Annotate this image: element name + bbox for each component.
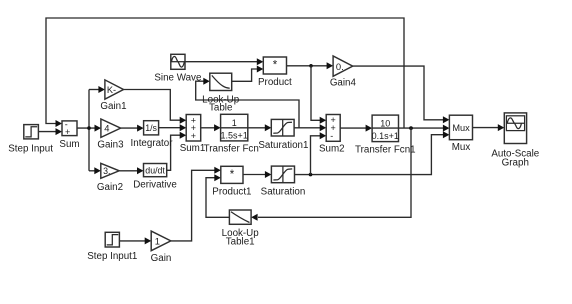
gain Gain [151,231,172,264]
wire Gain2 to Derivative [119,170,137,172]
wire branch Saturation1 out up to Look-Up Table [196,81,299,128]
svg-text:Gain3: Gain3 [97,140,124,151]
wire branch Saturation out up to Sum2 input 3 [311,136,321,175]
svg-text:K-: K- [107,85,116,95]
arrow into Sum2 input 3 [320,132,327,139]
wire Gain to Product1 input 1 [171,170,215,241]
svg-text:1.5s+1: 1.5s+1 [221,131,248,141]
wire branch to Gain1 [89,89,99,91]
svg-text:*: * [230,169,235,181]
wire Gain1 to Sum1 input 1 [124,90,181,121]
block Look-Up Table [202,73,240,113]
wire Sum1 to Transfer Fcn [201,127,215,129]
svg-text:Gain2: Gain2 [97,182,123,193]
arrow into Saturation [265,171,272,178]
arrow into Mux input 2 [443,125,450,132]
svg-text:3.: 3. [103,166,110,176]
arrow into Auto-Scale Graph [498,124,505,131]
svg-text:Saturation: Saturation [261,186,306,197]
arrow into Look-Up Table1 (points left) [251,214,258,221]
arrow into Derivative [137,167,144,174]
block Sine Wave [154,54,202,83]
svg-text:Sine Wave: Sine Wave [154,72,202,83]
node junction on Product output [309,64,313,68]
svg-text:Gain4: Gain4 [330,77,357,88]
svg-text:Step Input: Step Input [8,143,53,154]
arrow into Sum2 input 1 [320,117,327,124]
svg-text:+: + [191,131,196,141]
svg-text:du/dt: du/dt [145,166,165,176]
svg-text:+: + [65,127,70,137]
arrow into Sum input 2 [56,128,63,135]
wire Product1 to Saturation [243,174,265,176]
wire branch vertical to Gain1 and Gain2 [88,90,90,171]
gain Gain3 [97,119,124,151]
svg-text:0.1s+1: 0.1s+1 [372,131,399,141]
arrow into Sum1 input 2 [180,124,187,131]
arrow into Sum1 input 3 [180,132,187,139]
svg-text:Sum2: Sum2 [319,144,345,155]
svg-text:Transfer Fcn: Transfer Fcn [204,143,259,154]
arrow into Mux input 3 [443,131,450,138]
arrow into Gain (bottom) [145,237,152,244]
svg-text:0.: 0. [336,61,344,72]
wire Look-Up Table1 to Product1 input 2 [206,178,229,218]
wire Mux to Auto-Scale Graph [473,127,499,129]
arrow into Gain4 [327,62,334,69]
block Sum2 [319,115,345,155]
arrow into Mux input 1 [443,116,450,123]
svg-text:Saturation1: Saturation1 [258,140,308,151]
arrow into Sum1 input 1 [180,117,187,124]
block Mux [449,115,472,153]
wire Derivative to Sum1 input 3 [167,135,180,170]
arrow into Gain3 [95,125,102,132]
node junction on Transfer Fcn1 output [409,126,413,130]
svg-text:Gain: Gain [151,253,172,264]
wire Integrator to Sum1 input 2 [159,127,180,129]
block Auto-Scale Graph [491,113,539,168]
svg-text:Transfer Fcn1: Transfer Fcn1 [355,145,416,156]
wire branch to Gain2 [89,170,95,172]
arrow into Sum input 1 [56,120,63,127]
wire Gain4 to Mux input 1 [353,66,444,120]
gain Gain2 [97,163,123,193]
wire feedback down from Transfer Fcn1 to Look-Up Table1 [258,128,411,217]
wire Saturation1 to Sum2 input 2 [294,127,320,129]
node junction on Sum output [87,126,91,130]
wire Gain3 to Integrator [121,127,138,129]
svg-text:Mux: Mux [452,123,470,133]
svg-text:Derivative: Derivative [133,180,177,191]
block Transfer Fcn1 [355,115,416,155]
wire Look-Up Table to Product input 2 [232,69,257,81]
block Product1 [212,166,251,197]
block Step Input [8,125,53,155]
arrow into Integrator [137,125,144,132]
wire Transfer Fcn to Saturation1 [248,127,265,129]
block Saturation1 [258,119,308,150]
svg-text:Gain1: Gain1 [100,101,126,112]
wire Step Input to Sum [38,131,56,133]
block Sum1 [180,115,206,155]
block Saturation [261,166,306,197]
svg-text:Graph: Graph [502,157,529,168]
arrow into Product1 input 2 [214,174,221,181]
arrow into Sum2 input 2 [320,124,327,131]
wire Sum2 to Transfer Fcn1 [340,127,366,129]
wire Transfer Fcn1 to Mux input 2 [399,127,444,129]
wire Saturation to Mux input 3 [295,135,444,175]
arrow into Product input 1 [257,58,264,65]
svg-text:Step Input1: Step Input1 [87,251,137,262]
wire Sum output to Gain3 [77,127,95,129]
gain Gain4 [330,56,357,88]
wire Product to Gain4 [287,65,328,67]
wire branch Product out down to Sum2 input 1 [311,66,320,121]
arrow into Look-Up Table [203,78,210,85]
gain Gain1 [100,80,126,112]
block Product [258,57,292,88]
svg-text:10: 10 [380,119,390,129]
wire Step Input1 to Gain [119,240,145,242]
svg-text:*: * [273,60,278,72]
arrow into Gain2 [94,167,101,174]
arrow into Gain1 [98,86,105,93]
svg-text:Product: Product [258,77,292,88]
wire Sine Wave to Product input 1 [185,61,257,63]
block Transfer Fcn [204,114,259,154]
wire outer feedback loop top [46,18,404,128]
block Look-Up Table1 [222,210,260,247]
svg-text:1: 1 [155,236,160,247]
svg-text:Integrator: Integrator [131,138,174,149]
svg-text:Sum: Sum [59,139,79,150]
arrow into Product1 input 1 [214,167,221,174]
svg-text:-: - [330,131,333,141]
arrow into Transfer Fcn [214,124,221,131]
arrow into Saturation1 [265,124,272,131]
svg-text:Mux: Mux [452,142,471,153]
svg-text:Table1: Table1 [226,236,255,247]
svg-text:Table: Table [209,102,233,113]
block Integrator [131,121,174,149]
node junction on Saturation output [309,173,313,177]
svg-text:1: 1 [232,118,237,128]
svg-text:1/s: 1/s [145,123,157,133]
svg-text:Product1: Product1 [212,186,251,197]
block Derivative [133,164,177,191]
arrow into Transfer Fcn1 [366,125,373,132]
svg-text:Sum1: Sum1 [180,143,206,154]
svg-text:4: 4 [104,123,109,134]
block Step Input1 [87,232,137,261]
arrow into Product input 2 [257,66,264,73]
block Sum [59,119,79,150]
